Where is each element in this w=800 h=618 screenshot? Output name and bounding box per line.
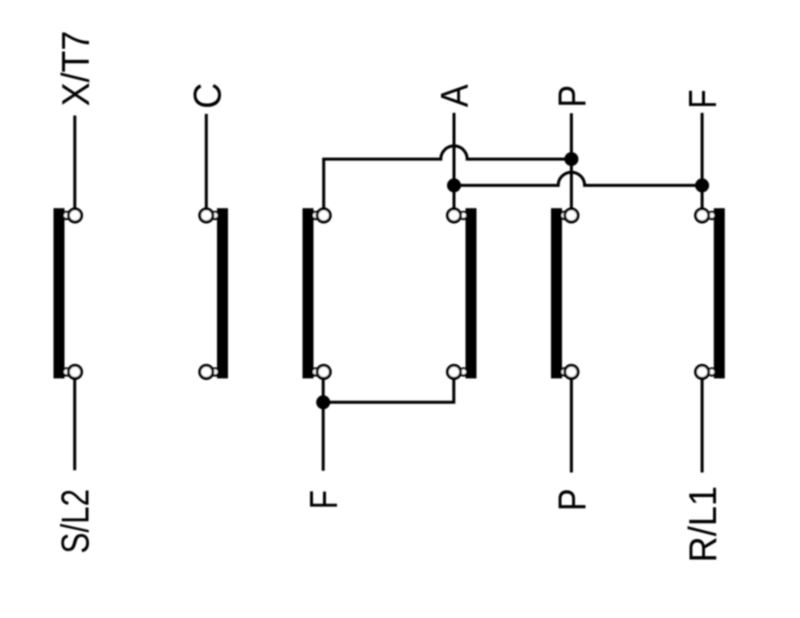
terminal small circle bar1 bottom	[63, 368, 70, 375]
svg-text:C: C	[186, 83, 229, 109]
terminal small circle bar2 top	[211, 212, 218, 219]
terminal small circle bar1 top	[63, 212, 70, 219]
terminal circle bar6 top	[696, 209, 709, 222]
wire P bottom lead	[570, 379, 573, 473]
terminal circle bar3 bottom	[317, 365, 330, 378]
node below bar3 bottom	[316, 395, 330, 409]
contact bar 3 (F pole left)	[303, 208, 314, 378]
wire bar3 top to P node with hop over A wire	[324, 146, 572, 209]
contact bar 6 (F - R/L1 pole)	[714, 208, 725, 378]
wire F node to bar4 bottom	[323, 379, 454, 402]
svg-text:P: P	[551, 85, 594, 108]
terminal small circle bar5 bottom	[560, 368, 567, 375]
node on F wire	[695, 178, 709, 192]
terminal circle bar2 bottom	[200, 365, 213, 378]
contact bar 1 (S/L2 - X/T7 pole)	[54, 208, 65, 378]
wire A lead	[453, 113, 456, 209]
wire X/T7 lead	[73, 116, 76, 209]
wire S/L2 lead	[73, 379, 76, 470]
terminal circle bar1 bottom	[68, 365, 81, 378]
wire A node to F node with hop over P wire	[454, 172, 702, 185]
wire C lead	[205, 114, 208, 209]
terminal small circle bar2 bottom	[211, 368, 218, 375]
terminal small circle bar6 top	[708, 212, 715, 219]
terminal small circle bar6 bottom	[708, 368, 715, 375]
terminal small circle bar3 top	[312, 212, 319, 219]
terminal circle bar5 top	[565, 209, 578, 222]
svg-text:P: P	[551, 489, 594, 512]
svg-text:X/T7: X/T7	[55, 31, 98, 107]
terminal circle bar2 top	[200, 209, 213, 222]
contact bar 4 (A pole)	[466, 208, 477, 378]
contact bar 5 (P pole)	[551, 208, 562, 378]
terminal small circle bar4 top	[460, 212, 467, 219]
wire R/L1 lead	[701, 379, 704, 473]
terminal circle bar6 bottom	[696, 365, 709, 378]
wire bar3 bottom to F lead	[322, 379, 325, 471]
svg-text:S/L2: S/L2	[55, 489, 98, 554]
contact bar 2 (C pole)	[217, 208, 228, 378]
svg-text:F: F	[682, 89, 725, 108]
terminal circle bar1 top	[68, 209, 81, 222]
wire P lead	[570, 113, 573, 208]
terminal circle bar4 bottom	[447, 365, 460, 378]
terminal circle bar4 top	[447, 209, 460, 222]
svg-text:R/L1: R/L1	[682, 486, 725, 563]
svg-text:F: F	[303, 490, 346, 509]
terminal small circle bar4 bottom	[460, 368, 467, 375]
terminal circle bar3 top	[317, 209, 330, 222]
node on A wire	[447, 178, 461, 192]
terminal circle bar5 bottom	[565, 365, 578, 378]
wire F lead	[701, 113, 704, 209]
svg-text:A: A	[434, 84, 477, 107]
node on P wire	[564, 152, 578, 166]
terminal small circle bar5 top	[560, 212, 567, 219]
terminal small circle bar3 bottom	[312, 368, 319, 375]
